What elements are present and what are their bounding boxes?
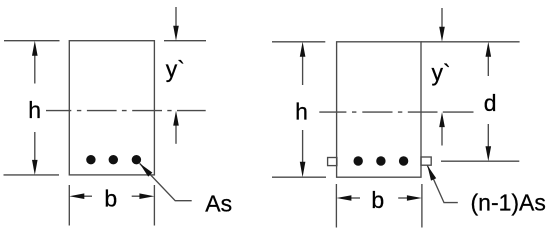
svg-text:d: d [484, 90, 497, 116]
wire: right h down arrow shaft [302, 130, 304, 164]
arrowhead: right y-prime up (below centerline) [439, 112, 445, 127]
wire: d bottom extension line at steel centroid [441, 160, 519, 162]
arrowhead: right h up [300, 42, 306, 57]
wire: right top-left extension line [272, 41, 325, 43]
wire: d down arrow shaft [487, 124, 489, 148]
wire: left y-prime down arrow shaft [175, 7, 177, 28]
arrowhead: As leader (points at rebar) [140, 163, 153, 176]
right beam outline [337, 42, 421, 177]
arrowhead: d up [486, 42, 492, 57]
svg-text:h: h [295, 99, 308, 125]
wire: left y-prime up arrow shaft [175, 123, 177, 144]
arrowhead: right y-prime down (above top line) [439, 27, 445, 42]
wire: right b dimension right tail [398, 197, 407, 199]
svg-text:(n-1)As: (n-1)As [471, 190, 546, 216]
wire: d up arrow shaft [487, 55, 489, 76]
arrowhead: left h down [32, 160, 38, 175]
wire: left b dimension left tail [84, 195, 93, 197]
wire: left b right extension line [153, 185, 155, 226]
rebar dot right 3 [399, 156, 408, 165]
wire: left h down arrow shaft [34, 132, 36, 162]
rebar dot left 1 [86, 155, 95, 164]
wire: right bottom-left extension line [272, 176, 326, 178]
svg-text:y`: y` [166, 56, 185, 82]
arrowhead: right h down [300, 162, 306, 178]
svg-text:b: b [371, 187, 384, 213]
wire: left centroid dash-dot centerline [46, 110, 206, 112]
wire: (n-1)As leader line [427, 165, 458, 202]
svg-text:h: h [28, 97, 41, 123]
wire: left b left extension line [68, 185, 70, 226]
wire: right y-prime down arrow shaft [441, 8, 443, 29]
left beam outline [69, 41, 154, 175]
wire: right centroid dash-dot centerline [319, 111, 437, 113]
transformed steel plate right (n-1)As [421, 157, 431, 165]
wire: right centerline solid extension for y-prime [443, 111, 474, 113]
wire: As leader line [140, 163, 192, 200]
rebar dot left 2 [109, 155, 118, 164]
wire: right top-right extension line [421, 41, 520, 43]
wire: left top-left extension line [4, 40, 60, 42]
wire: left top-right extension line [164, 40, 206, 42]
arrowhead: left y-prime down (above top line) [173, 26, 179, 41]
arrowhead: right b left [336, 195, 351, 201]
wire: left bottom-left extension line [4, 174, 60, 176]
wire: right b dimension left tail [351, 197, 360, 199]
arrowhead: left h up [32, 41, 38, 56]
rebar dot right 1 [354, 156, 363, 165]
wire: right b left extension line [335, 184, 337, 228]
wire: left h up arrow shaft [34, 53, 36, 84]
wire: right y-prime up arrow shaft [441, 125, 443, 146]
svg-text:b: b [104, 185, 117, 211]
svg-text:As: As [205, 191, 232, 217]
arrowhead: left y-prime up (below centerline) [173, 111, 179, 126]
rebar dot right 2 [376, 156, 385, 165]
wire: left b dimension right tail [132, 195, 141, 197]
arrowhead: (n-1)As leader (points at steel plate) [427, 165, 436, 180]
wire: right b right extension line [421, 184, 423, 228]
transformed steel plate left (n-1)As [328, 158, 337, 166]
wire: right h up arrow shaft [302, 54, 304, 85]
arrowhead: right b right [407, 195, 422, 201]
arrowhead: left b right [139, 193, 154, 199]
rebar dot left 3 [132, 155, 141, 164]
arrowhead: left b left [69, 193, 84, 199]
arrowhead: d down [486, 146, 492, 161]
svg-text:y`: y` [432, 60, 451, 86]
